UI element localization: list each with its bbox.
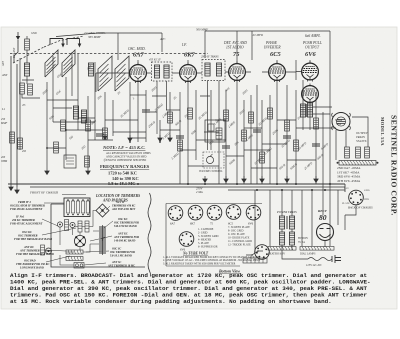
padder stack 1 <box>99 225 106 241</box>
padder stack 2 <box>99 239 106 255</box>
wire h mesh 9 <box>180 120 296 168</box>
rectifier tube 80 <box>317 224 334 241</box>
wire h mesh 3 <box>196 139 226 141</box>
antenna coil left <box>24 63 29 76</box>
speaker cone text <box>337 120 346 124</box>
capacitor C14 <box>283 136 291 138</box>
variable capacitor section 2 <box>67 39 81 48</box>
wire riser x316 <box>315 92 317 184</box>
resistor Rv1 <box>345 147 350 158</box>
wire h mesh 1 <box>130 94 146 96</box>
wire tube2 drop <box>187 82 189 185</box>
socket 6K7 <box>188 205 203 225</box>
socket legend column 1 <box>198 228 219 249</box>
tube 6C5 <box>269 62 286 83</box>
resistor R6 <box>54 142 59 153</box>
tube 6K7 <box>180 63 197 84</box>
label IF trans 2 <box>201 56 219 59</box>
terminal strip <box>243 258 267 263</box>
ground mid3 <box>242 176 246 183</box>
wire riser x323 <box>322 112 324 215</box>
wire riser x78 <box>77 54 79 130</box>
oscillator coil L5 <box>88 63 93 76</box>
wire riser x66 <box>65 77 67 160</box>
wire 6V6 cathode drop <box>309 103 311 131</box>
wire riser x72 <box>71 52 73 96</box>
socket 6C5 <box>226 205 241 226</box>
wire power links <box>282 205 356 259</box>
capacitor C16 <box>96 134 104 136</box>
socket 6A7 <box>168 206 183 226</box>
wire riser x146 <box>145 90 147 142</box>
svg-text:at 15 MC. Rock variable conden: at 15 MC. Rock variable condenser during… <box>10 298 332 305</box>
wire left riser 2 <box>16 64 18 187</box>
wire B+ bus <box>8 183 345 185</box>
wire tube1 cathode drop <box>137 82 139 143</box>
wire riser x287 <box>286 85 288 184</box>
wire riser x262 <box>261 100 263 184</box>
resistor R1 <box>20 83 25 94</box>
chassis outline <box>51 204 145 267</box>
wire h mesh 6 <box>244 127 262 129</box>
ground osc <box>45 168 49 175</box>
label top wire <box>159 28 264 42</box>
ground mid8 <box>260 176 264 183</box>
antenna coil L1 <box>45 50 58 77</box>
extra value labels <box>48 85 330 170</box>
wire power drops <box>255 190 338 252</box>
label 6C5 <box>263 41 281 58</box>
wire top link 1 <box>118 33 162 60</box>
capacitor C10 <box>142 110 150 112</box>
wire top link 3 <box>252 31 330 60</box>
osc coil L3 <box>73 106 78 119</box>
output transformer T4 <box>300 104 312 117</box>
resistor R15 <box>314 118 319 129</box>
wire tube4 drop <box>276 80 278 184</box>
IF transformer trimmer block A <box>64 198 90 217</box>
ground mid2 <box>203 176 207 183</box>
wire tube3 drop <box>236 80 238 184</box>
wire IF1 sec drop <box>166 81 168 110</box>
ground osc2 <box>86 168 90 175</box>
wire riser x296 <box>295 90 297 184</box>
wire riser x160 <box>159 120 161 142</box>
label 6V6 <box>302 34 322 58</box>
diamond trimmer <box>96 204 109 217</box>
label bottom view <box>218 269 240 274</box>
tube 6V6 upper <box>302 61 319 82</box>
ground left2 <box>15 187 19 194</box>
label rect 80 <box>318 209 328 222</box>
antenna <box>14 32 20 62</box>
tube 75 <box>229 62 246 83</box>
label front of chassis <box>29 191 86 195</box>
callout labels left column <box>10 201 54 270</box>
ground mid9 <box>314 176 318 183</box>
wire B bus 3 <box>228 189 345 191</box>
wire riser x226 <box>225 90 227 184</box>
callout leader lines right <box>84 206 113 265</box>
socket lamp <box>255 245 270 260</box>
trimmer cluster A <box>57 220 75 231</box>
wire h mesh 4 <box>244 149 270 151</box>
label 6A7 <box>128 47 146 59</box>
ground mid6 <box>168 135 172 142</box>
wire bus right drop <box>344 184 346 192</box>
wire AVC dashed bus <box>10 53 208 55</box>
wire heater bus <box>30 186 345 188</box>
label heater bars <box>268 253 316 256</box>
resistor R19 <box>242 130 247 141</box>
oscillator coil L2 <box>62 50 75 77</box>
label IF trans 1 <box>149 59 161 62</box>
resistor R9 <box>168 112 173 123</box>
wire riser x257 <box>256 85 258 184</box>
resistor R3 <box>10 132 15 143</box>
wire riser x251 <box>250 95 252 184</box>
note text <box>102 145 151 162</box>
wire h mesh 5 <box>287 159 316 161</box>
wire ant to gang <box>22 36 40 98</box>
wire left riser 3 <box>19 58 21 150</box>
wire top shield <box>56 33 118 37</box>
wire speaker drops <box>336 117 368 160</box>
wire riser x47 <box>46 82 48 168</box>
resistor R23 <box>86 120 91 131</box>
wire riser x211 <box>210 90 212 150</box>
resistor R4 <box>18 138 23 149</box>
resistor R10b <box>188 108 193 119</box>
power cord and plug <box>306 255 341 267</box>
label gang <box>84 31 106 39</box>
resistor Rv2 <box>356 147 361 158</box>
resistor R7 <box>85 156 90 167</box>
wire riser x330 <box>329 60 331 190</box>
RF coil L6 <box>98 56 112 91</box>
gang trimmer bottom view <box>74 235 85 246</box>
wire h mesh 10 <box>47 108 113 148</box>
socket 6V6 <box>246 205 261 225</box>
ground mid5 <box>128 135 132 142</box>
wire h mesh 8 <box>105 120 146 138</box>
resistor R14 <box>285 120 290 131</box>
wire riser x95 <box>94 62 96 140</box>
label 250v <box>196 187 204 195</box>
ground left1 <box>9 184 13 191</box>
label volume control <box>199 170 223 173</box>
wire IF2 sec drop <box>218 81 220 185</box>
wire riser x130 <box>129 82 131 142</box>
heater wiring bars <box>268 247 296 251</box>
label power trans 2 <box>298 237 308 244</box>
power transformer <box>279 216 294 245</box>
capacitor C1 <box>25 39 30 50</box>
callout labels right of inset <box>107 201 139 268</box>
resistor R17 <box>178 140 183 151</box>
resistor R20 <box>260 152 265 163</box>
IF transformer T2 <box>152 62 173 81</box>
svg-text:EXT ANT: EXT ANT <box>13 47 16 59</box>
top-left tiny labels <box>13 32 37 59</box>
wire left riser 1 <box>10 56 12 184</box>
wire riser x180 <box>179 100 181 184</box>
bottom-left trimmer cluster <box>41 245 52 255</box>
RF coil L7 <box>115 56 129 91</box>
volume control <box>203 152 224 168</box>
resistor R11 <box>224 110 229 121</box>
wire h mesh 2 <box>160 129 180 131</box>
left value labels <box>0 61 26 163</box>
wire socket row top <box>166 204 262 267</box>
tube 6V6 lower <box>302 84 319 105</box>
ground mid7 <box>224 176 228 183</box>
label 75 <box>223 41 247 58</box>
resistor R13 <box>268 108 273 119</box>
socket labels <box>342 187 370 205</box>
wire riser x88 <box>87 96 89 168</box>
junction dots <box>46 129 331 191</box>
note numbered lines <box>163 256 261 265</box>
rectifier socket <box>348 190 373 209</box>
socket legend column 2 <box>228 226 252 247</box>
wire riser x196 <box>195 90 197 160</box>
capacitor C11 <box>176 136 184 138</box>
resistor R5 <box>61 120 66 131</box>
wire riser x270 <box>269 95 271 184</box>
osc coil L4 <box>81 110 86 123</box>
socket 6V6 lower <box>179 232 194 252</box>
callout lines <box>42 203 76 262</box>
wire grid caps <box>138 31 310 64</box>
IF transformer T3 <box>202 60 225 81</box>
label 6K7 <box>181 43 195 59</box>
wire riser x244 <box>243 100 245 184</box>
wire gang shaft diagonal <box>44 36 84 47</box>
torn edge wavy line <box>148 193 151 277</box>
ground mid10 <box>103 133 107 140</box>
resistor R12 <box>249 112 254 123</box>
label ant section <box>1 73 8 111</box>
wire to speaker <box>313 107 332 114</box>
wire riser x170 <box>169 92 171 142</box>
title model 53a <box>380 117 385 146</box>
heater wiring bars 2 <box>300 247 334 251</box>
trimmer cluster B <box>74 221 93 232</box>
resistor Rv3 <box>365 147 370 158</box>
wire riser x113 <box>112 100 114 136</box>
variable capacitor section 1 <box>50 39 65 48</box>
ground mid4 <box>285 176 289 183</box>
wire inset links <box>46 211 100 266</box>
detector filter box <box>205 120 225 142</box>
title sentinel radio corp <box>390 115 399 216</box>
svg-text:GND: GND <box>31 32 37 35</box>
padder C5 <box>64 155 76 168</box>
wire top link 2 <box>205 31 252 60</box>
wire cross h1 <box>47 99 78 101</box>
field coil <box>337 161 379 166</box>
wire IF1 pri drop <box>156 81 158 120</box>
tube 6A7 <box>130 63 147 84</box>
resistor R2 <box>28 84 33 95</box>
speaker <box>332 113 351 131</box>
wire riser x105 <box>104 92 106 140</box>
socket 75 <box>207 205 222 225</box>
switch SW1 <box>246 250 263 256</box>
resistor R22 <box>103 128 108 139</box>
label output trans <box>356 131 368 143</box>
label location of trimmers <box>95 194 140 203</box>
wire IF2 pri drop <box>207 81 209 151</box>
wire tube stubs <box>96 60 302 92</box>
ground mid1 <box>158 135 162 142</box>
bottom-center padder bars <box>66 250 83 261</box>
extra mesh center <box>146 92 226 134</box>
wire h mesh 7 <box>296 127 336 129</box>
wire riser x53 <box>52 56 54 122</box>
wire riser x303 <box>302 80 304 130</box>
capacitor C13 <box>253 130 261 132</box>
resistor R21 <box>294 140 299 151</box>
wire dashed gang shaft left <box>13 47 44 63</box>
bottom small trimmer <box>74 263 84 269</box>
label tube view <box>182 252 209 256</box>
tube current list <box>337 166 361 183</box>
more value labels <box>41 64 302 121</box>
frequency ranges table <box>100 164 150 186</box>
label power trans <box>276 210 297 214</box>
wire cross h2 <box>53 122 105 130</box>
capacitor C12 <box>222 146 230 148</box>
capacitor C15 <box>312 144 320 146</box>
